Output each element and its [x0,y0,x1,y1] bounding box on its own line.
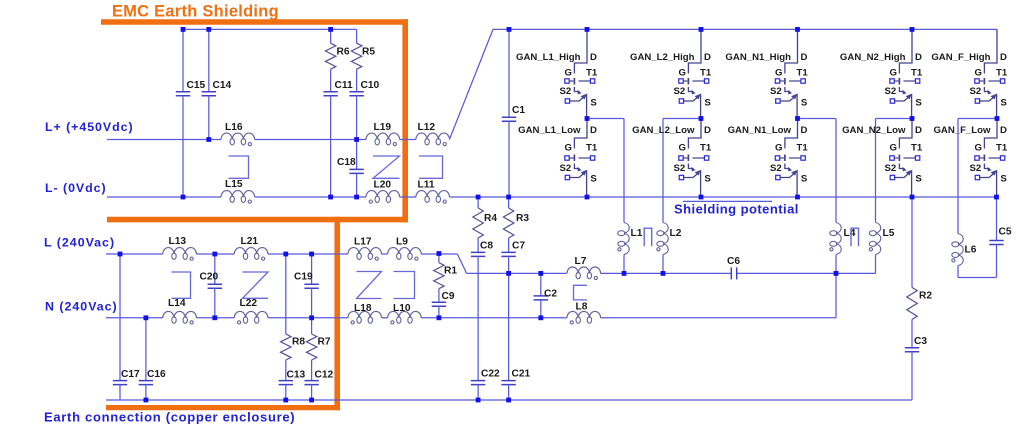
wire phase mid rail leg L1 [587,118,624,120]
wire R5 to C10 [356,69,358,92]
wire L6 bottom [957,266,959,278]
transistor F gate lead [979,157,983,159]
wire diagonal L12 to top bus [449,29,493,139]
transistor N1 pin T1 pad [801,79,805,83]
node junction [354,195,359,200]
node junction [328,195,333,200]
wire bridge top bus [493,28,997,30]
svg-text:C11: C11 [335,80,353,91]
wire column R5 stub [356,29,358,43]
inductor L8 [567,311,601,317]
transistor N2 source lead [895,171,912,197]
transistor L2 gate bar [687,78,689,85]
node junction [795,195,800,200]
transistor N1 drain lead [785,29,798,73]
capacitor C6 [731,267,736,279]
transistor L2 gate lead [683,157,687,159]
wire phase riser leg N1 [835,119,837,223]
node junction [437,315,442,320]
wire Shielding potential tick [683,200,772,202]
node junction [910,195,915,200]
svg-text:S: S [801,174,808,185]
svg-text:G: G [775,67,782,78]
wire L- rail segment 3 [400,196,416,198]
svg-text:T1: T1 [797,143,809,154]
inductor L21 [234,248,268,254]
svg-text:G: G [679,67,686,78]
svg-text:R8: R8 [292,336,305,347]
transistor L1 pin S2 pad [565,175,569,179]
transistor N1 S2 link [785,164,790,169]
capacitor C16 [139,381,153,385]
svg-text:G: G [975,67,982,78]
capacitor C9 [432,302,446,306]
node junction [585,195,590,200]
wire L rail segment 4 [381,253,387,255]
transistor F gate bar [983,155,985,162]
svg-text:L12: L12 [418,122,436,133]
inductor L14 [163,311,197,317]
inductor L18 [348,311,382,317]
wire AC output rail mid [601,272,732,274]
transistor N2 drain lead [899,119,912,149]
wire L rail diagonal jog [457,254,466,273]
transistor N2 drain lead [899,29,912,73]
svg-text:S: S [704,174,711,185]
wire N rail segment 5 [421,317,567,319]
transistor F source lead [980,171,997,197]
transistor F gate lead [979,80,983,82]
transistor L1 source lead [570,95,587,119]
wire L+ rail segment 3 [400,139,416,141]
transistor F drain lead [984,29,997,73]
svg-text:C15: C15 [187,80,206,91]
wire C21 to earth [508,385,510,400]
transistor N2 pin T1 pad [915,79,919,83]
svg-text:T1: T1 [586,67,598,78]
svg-text:C3: C3 [914,336,927,347]
wire R8 to C13 [285,360,287,381]
transistor L1 gate bar [573,78,575,85]
wire column C5 upper [996,197,998,241]
wire L+ rail segment 1 [107,139,221,141]
wire 0Vdc rail under bridge [449,196,997,198]
capacitor C1 [502,117,516,121]
inductor L6 [958,234,963,266]
resistor R2 [907,287,917,319]
svg-text:L20: L20 [374,180,392,191]
node junction [834,271,839,276]
svg-text:C12: C12 [315,369,334,380]
wire N rail segment 4 [381,317,387,319]
transistor N2 pin T1 lead [904,80,916,82]
svg-text:S2: S2 [885,86,897,97]
EMC shielding box right edge [402,19,408,222]
svg-text:GAN_F_High: GAN_F_High [931,52,990,63]
svg-text:G: G [890,67,897,78]
svg-text:C19: C19 [294,271,313,282]
svg-text:L4: L4 [844,228,856,239]
transistor L1 pin T1 lead [579,157,591,159]
transistor F pin T1 pad [1000,156,1004,160]
svg-text:S2: S2 [560,86,572,97]
wire L- rail segment 2 [255,196,366,198]
svg-text:C5: C5 [999,226,1012,237]
transistor F S2 link [984,164,989,169]
svg-text:S2: S2 [560,163,572,174]
svg-text:L19: L19 [374,122,392,133]
wire phase mid rail leg N1 [798,118,837,120]
node junction [994,195,999,200]
transistor L1 drain lead [574,29,587,73]
inductor L1 [624,223,629,255]
wire R1 to C9 [438,289,440,303]
transistor N2 pin G pad [890,156,894,160]
wire column C17 upper [119,254,121,381]
svg-text:GAN_L1_Low: GAN_L1_Low [518,125,581,136]
capacitor C14 [202,92,216,96]
capacitor C12 [304,381,318,385]
resistor R7 [306,334,316,360]
transistor N1 pin S2 pad [776,175,780,179]
svg-text:Shielding potential: Shielding potential [674,202,799,217]
transistor F gate bar [983,78,985,85]
wire column C18 lower [356,173,358,197]
coupling bracket L16 L15 [229,156,249,178]
svg-text:GAN_L2_High: GAN_L2_High [630,52,695,63]
svg-text:R3: R3 [516,213,529,224]
inductor L15 [221,191,255,197]
svg-text:L15: L15 [225,179,243,190]
transistor L1 pin T1 lead [579,80,591,82]
svg-text:Earth connection (copper enclo: Earth connection (copper enclosure) [44,410,295,425]
svg-text:D: D [915,52,922,63]
wire C7 to C21 [508,256,510,380]
wire L+ rail segment 2 [255,139,366,141]
node DC bus R6 [328,27,333,32]
coupling bracket L12 L11 [419,156,443,178]
transistor F pin T1 pad [1000,79,1004,83]
svg-text:D: D [801,125,808,136]
wire L rail segment 2 [196,253,234,255]
wire L- rail segment 1 [107,196,221,198]
transistor F pin G pad [975,79,979,83]
inductor L19 [366,133,400,139]
transistor L2 gate bar [687,155,689,162]
transistor N1 gate lead [780,157,784,159]
wire phase riser leg N2 [875,119,877,223]
svg-text:GAN_N1_Low: GAN_N1_Low [728,125,792,136]
transistor L1 gate lead [569,157,573,159]
wire N rail segment 3 [268,317,348,319]
capacitor C3 [905,348,919,352]
transistor F source lead [980,95,997,119]
svg-text:C21: C21 [512,368,531,379]
wire phase riser leg L1 [623,119,625,223]
svg-text:T1: T1 [996,143,1008,154]
svg-text:L- (0Vdc): L- (0Vdc) [45,181,107,195]
inductor L2 [663,223,668,255]
node junction [476,195,481,200]
svg-text:C16: C16 [147,369,166,380]
capacitor C15 [176,92,190,96]
resistor R5 [351,43,361,69]
transistor N2 pin S2 pad [890,99,894,103]
svg-text:R5: R5 [362,46,375,57]
transistor L2 pin G pad [679,156,683,160]
svg-text:G: G [890,143,897,154]
transistor L1 gate bar [573,155,575,162]
svg-text:L6: L6 [965,244,977,255]
svg-text:C17: C17 [121,369,140,380]
wire column R4 stub [477,197,479,208]
svg-text:T1: T1 [586,143,598,154]
svg-text:S: S [1000,174,1007,185]
node junction [212,315,217,320]
transistor L1 S2 link [574,164,579,169]
transistor N1 pin G pad [775,156,779,160]
wire column R1 stub [438,254,440,263]
coupling bracket L13 L14 [172,272,191,298]
node junction [506,271,511,276]
svg-text:D: D [704,125,711,136]
node junction [181,195,186,200]
transistor L2 source lead [684,95,701,119]
wire C19 lower [311,288,313,318]
svg-text:L10: L10 [393,303,411,314]
wire column C1 lower [508,121,510,197]
wire R4 to C8 [477,238,479,252]
node DC bus C14 [206,27,211,32]
transistor N2 S2 link [899,87,904,92]
node junction [283,252,288,257]
wire column C16 upper [145,318,147,381]
svg-text:L17: L17 [354,237,372,248]
svg-text:R7: R7 [318,336,331,347]
svg-text:L11: L11 [418,180,435,191]
node junction [309,315,314,320]
wire R2 to C3 [911,319,913,347]
wire column C16 lower [145,385,147,400]
wire column C2 upper [540,273,542,296]
node junction [309,252,314,257]
svg-text:T1: T1 [797,67,809,78]
wire L4 bottom [835,255,837,274]
transistor F pin T1 lead [989,157,1001,159]
node junction [206,137,211,142]
wire L rail segment 5 [421,253,457,255]
svg-text:R6: R6 [337,46,350,57]
node junction [995,116,1000,121]
svg-text:S: S [590,174,597,185]
wire phase mid rail leg N2 [876,118,913,120]
svg-text:S2: S2 [970,86,982,97]
inductor L7 [567,267,601,273]
svg-text:D: D [801,52,808,63]
resistor R6 [325,43,335,69]
capacitor C7 [501,252,515,256]
transistor F pin T1 lead [989,80,1001,82]
node junction [585,116,590,121]
capacitor C22 [471,381,485,385]
svg-text:L5: L5 [883,228,895,239]
transistor N2 pin T1 lead [904,157,916,159]
wire N rail riser to output node [835,273,837,317]
wire phase mid rail leg L2 [663,118,701,120]
wire column C15 lower [182,96,184,197]
wire C2 lower [540,300,542,318]
EMC shielding box top edge [101,19,408,25]
wire column R7 stub [311,318,313,334]
svg-text:S: S [801,98,808,109]
wire column C19 [311,254,313,284]
capacitor C18 [349,169,363,173]
svg-text:L (240Vac): L (240Vac) [44,235,115,249]
svg-text:S2: S2 [885,163,897,174]
wire C9 lower [438,306,440,318]
transistor N1 pin T1 lead [789,80,801,82]
svg-text:GAN_N2_Low: GAN_N2_Low [842,125,906,136]
wire column C10 lower [356,96,358,140]
node junction [795,116,800,121]
transistor L2 drain lead [688,29,701,73]
wire phase mid rail leg F [958,118,997,120]
svg-text:S2: S2 [674,86,686,97]
svg-text:C10: C10 [361,80,380,91]
svg-text:G: G [975,143,982,154]
transistor L2 pin T1 lead [693,80,705,82]
svg-text:R4: R4 [484,213,497,224]
transistor N2 S2 link [899,164,904,169]
inductor L17 [348,248,382,254]
svg-text:G: G [565,67,572,78]
node top bus [585,27,590,32]
transistor F pin S2 pad [975,99,979,103]
wire R3 to C7 [508,238,510,252]
node junction [699,195,704,200]
transistor L2 drain lead [688,119,701,149]
node top bus [699,27,704,32]
transistor F pin G pad [975,156,979,160]
coupling bracket L7 L8 [574,285,588,300]
svg-text:D: D [704,52,711,63]
svg-text:R2: R2 [919,290,932,301]
inductor L11 [416,191,450,197]
transistor N1 drain lead [785,119,798,149]
node junction [283,398,288,403]
wire N rail segment 2 [196,317,234,319]
svg-text:C13: C13 [287,369,306,380]
transistor N1 pin T1 pad [801,156,805,160]
transistor L1 pin G pad [565,79,569,83]
wire earth rail [106,399,912,401]
wire column C1 upper [508,29,510,117]
svg-text:S: S [590,98,597,109]
svg-text:L9: L9 [396,237,408,248]
transistor L1 pin T1 pad [590,79,594,83]
wire phase riser leg F [957,119,959,234]
node junction [212,252,217,257]
transistor N1 pin S2 pad [776,99,780,103]
svg-text:C1: C1 [512,105,525,116]
svg-text:S: S [915,98,922,109]
transistor L1 S2 link [574,87,579,92]
node junction [354,137,359,142]
node junction [538,271,543,276]
wire column C5 lower [996,245,998,278]
node junction [144,398,149,403]
svg-text:T1: T1 [996,67,1008,78]
transistor N2 gate lead [894,80,898,82]
coupling Z symbol L17 L18 [357,272,382,299]
node junction [506,398,511,403]
node top bus [910,27,915,32]
svg-text:S: S [704,98,711,109]
svg-text:S2: S2 [770,163,782,174]
svg-text:T1: T1 [700,143,712,154]
transistor L2 pin G pad [679,79,683,83]
svg-text:L1: L1 [631,228,643,239]
inductor L9 [388,248,422,254]
resistor R8 [281,334,291,360]
transistor L2 pin T1 pad [704,79,708,83]
transistor L1 source lead [570,171,587,197]
transistor L2 pin S2 pad [679,99,683,103]
svg-text:S2: S2 [970,163,982,174]
svg-text:L18: L18 [354,303,372,314]
svg-text:C2: C2 [544,288,557,299]
wire L rail segment 1 [106,253,163,255]
wire column R8 upper [285,254,287,334]
svg-text:S: S [1000,98,1007,109]
transistor N2 gate bar [898,155,900,162]
node junction [538,315,543,320]
resistor R3 [503,208,513,238]
svg-text:L22: L22 [240,298,258,309]
transistor N2 pin G pad [890,79,894,83]
svg-text:T1: T1 [911,67,923,78]
inductor L4 [836,223,841,255]
transistor N1 gate lead [780,80,784,82]
svg-text:EMC Earth Shielding: EMC Earth Shielding [112,2,279,20]
inductor L5 [876,223,881,255]
capacitor C10 [349,92,363,96]
EMC shielding box vertical edge AC section [334,217,340,410]
svg-text:C6: C6 [727,256,740,267]
svg-text:GAN_N2_High: GAN_N2_High [840,52,906,63]
wire N rail segment 6 [601,317,837,319]
node top bus C1 [507,27,512,32]
svg-text:L21: L21 [241,236,259,247]
capacitor C2 [534,296,548,300]
svg-text:GAN_N1_High: GAN_N1_High [725,52,791,63]
wire phase riser leg L2 [662,119,664,223]
inductor L12 [416,133,450,139]
svg-text:C7: C7 [512,241,525,252]
coupling bars L4 L5 [851,228,859,246]
svg-text:L2: L2 [670,228,682,239]
node DC bus C15 [181,27,186,32]
wire column R2 stub [911,197,913,287]
node junction [437,251,442,256]
node junction [699,116,704,121]
svg-text:C18: C18 [337,157,356,168]
wire AC output rail right of C6 [737,272,876,274]
transistor L2 pin S2 pad [679,175,683,179]
wire column C17 lower [119,385,121,400]
wire L5 bottom [875,255,877,274]
svg-text:L14: L14 [168,298,186,309]
